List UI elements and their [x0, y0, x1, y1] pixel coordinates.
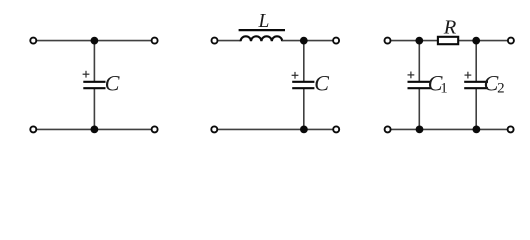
terminal: circuit2 bottom-right [333, 126, 339, 132]
polarity + of capacitor C [83, 71, 90, 78]
svg-text:C: C [314, 71, 329, 96]
terminal: circuit3 top-right [508, 38, 514, 44]
svg-text:C: C [105, 71, 120, 96]
wire: circuit1 capacitor stem bottom [93, 88, 95, 129]
resistor R body [438, 37, 458, 44]
capacitor C plates [83, 82, 105, 88]
terminal: circuit2 top-right [333, 38, 339, 44]
polarity + of capacitor C1 [408, 72, 415, 79]
terminal: circuit1 bottom-right [152, 126, 158, 132]
wire: circuit2 top rail left [218, 40, 241, 42]
inductor L coil [241, 36, 283, 41]
capacitor C1 plates [408, 82, 431, 88]
node: circuit1 bottom junction [91, 125, 99, 133]
terminal: circuit3 bottom-right [508, 126, 514, 132]
terminal: circuit2 bottom-left [211, 126, 217, 132]
node: circuit2 bottom junction [300, 125, 308, 133]
polarity + of capacitor C (circuit2) [292, 72, 299, 79]
wire: circuit2 bottom rail [218, 128, 333, 130]
node: circuit3 top-right junction [472, 37, 480, 45]
inductor L core bar [239, 29, 285, 31]
terminal: circuit1 top-left [30, 38, 36, 44]
terminal: circuit2 top-left [212, 38, 218, 44]
wire: circuit1 capacitor stem top [93, 41, 95, 81]
terminal: circuit3 top-left [385, 38, 391, 44]
terminal: circuit3 bottom-left [385, 126, 391, 132]
wire: circuit1 bottom rail [37, 128, 151, 130]
wire: circuit3 capacitor C2 stem bottom [475, 88, 477, 129]
wire: circuit3 top rail [391, 40, 507, 42]
polarity + of capacitor C2 [465, 72, 472, 79]
wire: circuit2 capacitor stem bottom [303, 88, 305, 129]
wire: circuit2 capacitor stem top [303, 41, 305, 81]
capacitor C2 plates [464, 82, 488, 88]
svg-text:L: L [258, 11, 270, 32]
node: circuit2 top junction [300, 37, 308, 45]
node: circuit3 bottom-left junction [416, 125, 424, 133]
svg-text:R: R [443, 16, 457, 38]
capacitor C plates (circuit2) [292, 82, 314, 88]
node: circuit3 bottom-right junction [473, 125, 481, 133]
node: circuit1 top junction [91, 37, 99, 45]
wire: circuit3 capacitor C1 stem bottom [418, 88, 420, 129]
node: circuit3 top-left junction [415, 37, 423, 45]
wire: circuit3 capacitor C1 stem top [418, 41, 420, 81]
terminal: circuit1 bottom-left [30, 126, 36, 132]
wire: circuit3 bottom rail [391, 128, 507, 130]
wire: circuit2 top rail right [282, 40, 332, 42]
terminal: circuit1 top-right [152, 38, 158, 44]
wire: circuit1 top rail [37, 40, 151, 42]
wire: circuit3 capacitor C2 stem top [475, 41, 477, 81]
